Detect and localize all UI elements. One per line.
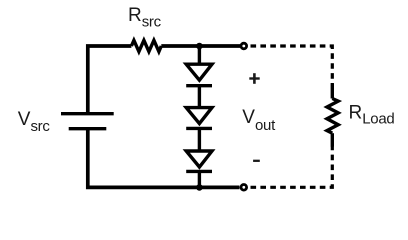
resistor R_Load [327,84,338,147]
wire dashed bottom to load [251,146,333,187]
diode D1 [186,64,212,86]
terminal + open circle [241,43,247,49]
wire top from source to node A [88,46,132,113]
label plus [249,73,259,84]
wire node A to D1 [198,46,201,65]
wire D2 to D3 [198,128,201,151]
node B bottom junction [196,184,203,191]
svg-text:Rsrc: Rsrc [128,5,162,31]
resistor R_src [131,40,161,51]
diode D2 [186,108,212,129]
wire bottom from source [88,129,240,188]
wire D3 to node B [198,171,201,187]
node A top junction [196,43,203,50]
diode D3 [186,151,212,171]
svg-text:RLoad: RLoad [349,102,395,127]
wire D1 to D2 [198,86,201,108]
wire dashed top to load [251,46,333,84]
terminal - open circle [241,185,247,191]
label minus [253,160,260,162]
voltage source V_src battery [61,114,114,129]
wire from R_src to terminal plus [161,44,240,48]
svg-text:Vout: Vout [242,107,276,134]
svg-text:Vsrc: Vsrc [18,109,51,135]
